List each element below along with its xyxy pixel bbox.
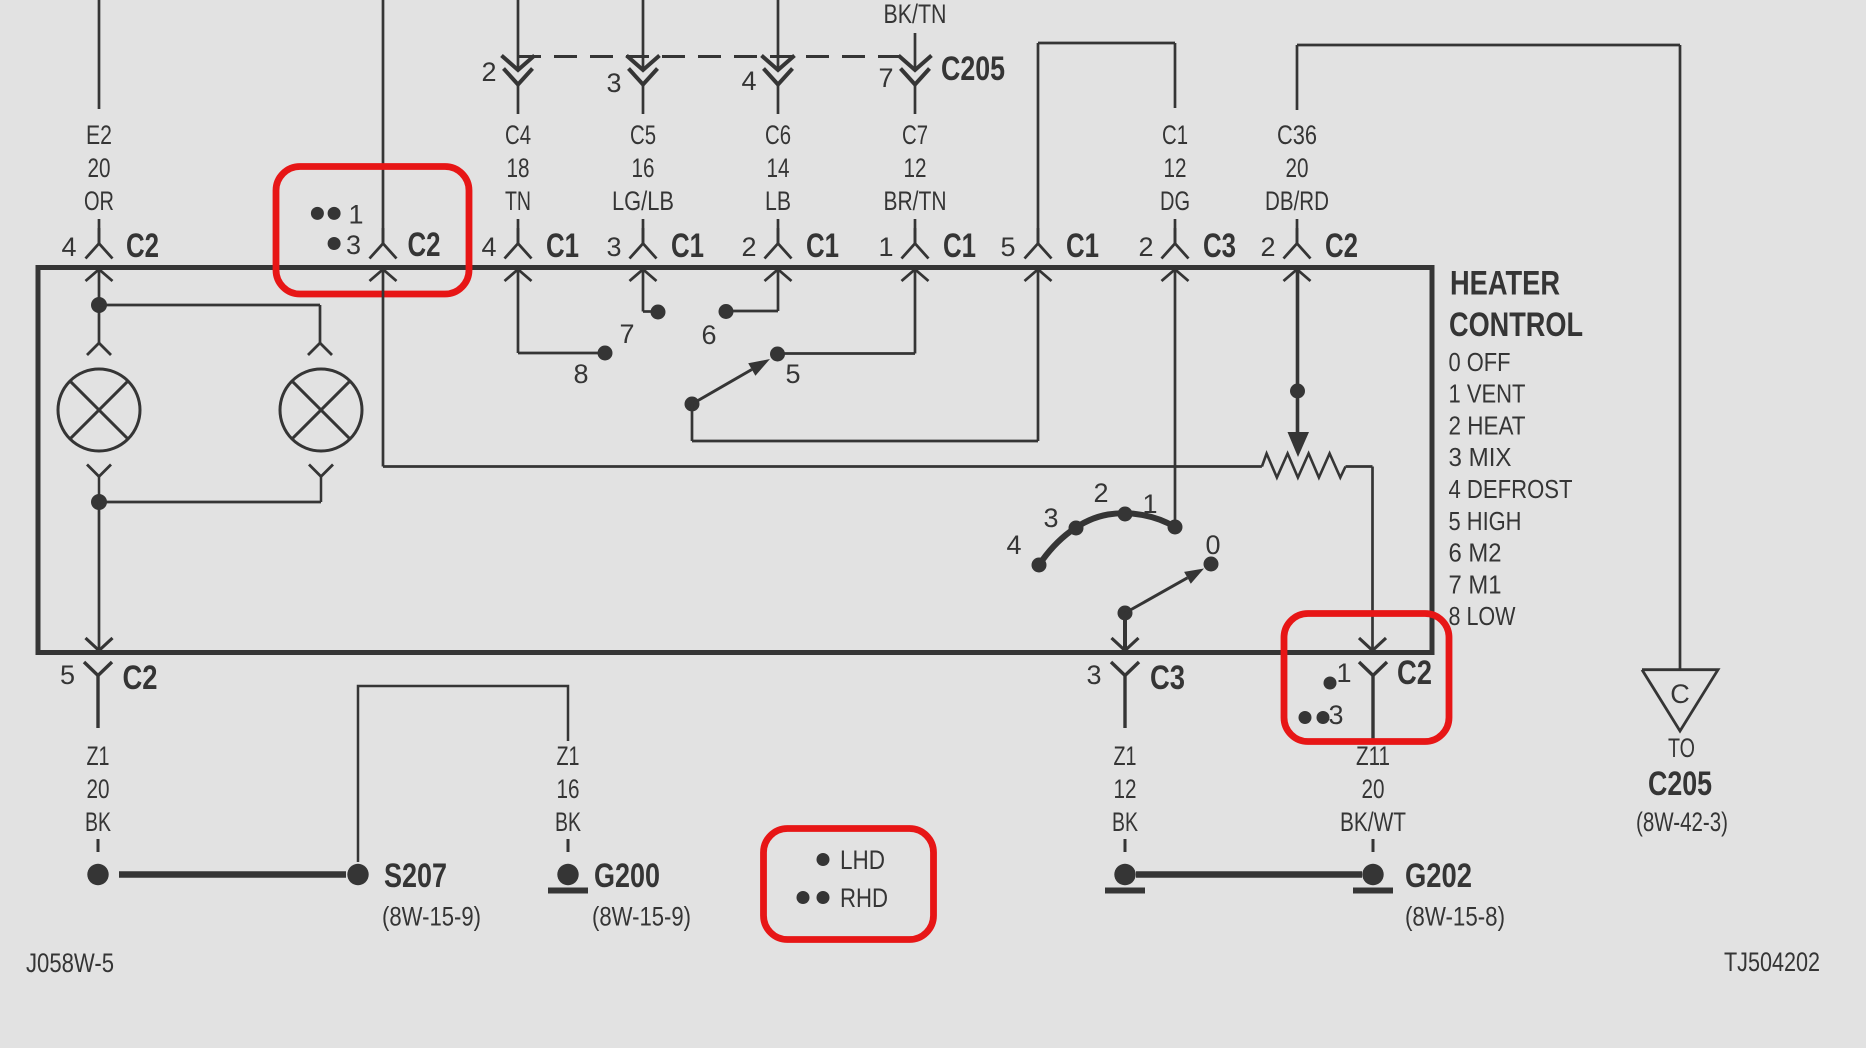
svg-text:1: 1 [878, 232, 893, 262]
svg-text:OR: OR [84, 186, 114, 216]
svg-text:G200: G200 [594, 857, 660, 895]
svg-text:0 OFF: 0 OFF [1449, 347, 1511, 377]
svg-text:C205: C205 [1648, 765, 1712, 803]
svg-text:Z1: Z1 [87, 741, 110, 771]
svg-text:TO: TO [1668, 733, 1695, 763]
svg-text:TJ504202: TJ504202 [1724, 947, 1820, 977]
svg-text:C36: C36 [1277, 120, 1317, 150]
svg-text:BK/WT: BK/WT [1340, 807, 1406, 837]
svg-text:5 HIGH: 5 HIGH [1449, 506, 1522, 536]
svg-text:Z1: Z1 [1114, 741, 1137, 771]
svg-text:1: 1 [1336, 658, 1351, 688]
svg-text:4: 4 [741, 66, 756, 96]
svg-text:C: C [1670, 679, 1690, 709]
svg-text:C2: C2 [123, 659, 158, 697]
svg-text:C4: C4 [505, 120, 531, 150]
svg-text:DB/RD: DB/RD [1265, 186, 1329, 216]
svg-text:C5: C5 [630, 120, 656, 150]
svg-text:20: 20 [1362, 774, 1385, 804]
svg-text:RHD: RHD [840, 883, 888, 913]
svg-text:DG: DG [1160, 186, 1190, 216]
svg-text:2: 2 [481, 57, 496, 87]
svg-text:20: 20 [87, 774, 110, 804]
svg-text:BK: BK [1112, 807, 1138, 837]
svg-text:0: 0 [1205, 530, 1220, 560]
svg-text:4: 4 [481, 232, 496, 262]
svg-text:C1: C1 [546, 227, 579, 265]
svg-text:1: 1 [1142, 489, 1157, 519]
svg-text:2: 2 [741, 232, 756, 262]
svg-text:12: 12 [1164, 153, 1187, 183]
svg-text:12: 12 [904, 153, 927, 183]
svg-text:C2: C2 [1397, 654, 1432, 692]
svg-text:C6: C6 [765, 120, 791, 150]
svg-text:5: 5 [1000, 232, 1015, 262]
svg-text:2 HEAT: 2 HEAT [1449, 410, 1526, 440]
svg-text:TN: TN [505, 186, 531, 216]
svg-text:C7: C7 [902, 120, 928, 150]
svg-text:Z11: Z11 [1356, 741, 1390, 771]
svg-text:1 VENT: 1 VENT [1449, 379, 1526, 409]
svg-text:12: 12 [1114, 774, 1137, 804]
svg-text:C205: C205 [941, 50, 1005, 88]
svg-text:3: 3 [1328, 700, 1343, 730]
svg-text:2: 2 [1260, 232, 1275, 262]
svg-text:C1: C1 [671, 227, 704, 265]
svg-text:16: 16 [632, 153, 655, 183]
svg-text:Z1: Z1 [557, 741, 580, 771]
svg-text:BK: BK [555, 807, 581, 837]
svg-text:BK/TN: BK/TN [884, 0, 947, 29]
svg-text:7 M1: 7 M1 [1449, 569, 1502, 599]
svg-text:4: 4 [1006, 530, 1021, 560]
svg-text:C3: C3 [1203, 227, 1236, 265]
svg-text:20: 20 [1286, 153, 1309, 183]
svg-text:14: 14 [767, 153, 790, 183]
svg-text:(8W-15-9): (8W-15-9) [592, 902, 691, 932]
svg-text:C3: C3 [1150, 659, 1185, 697]
svg-text:C2: C2 [126, 227, 159, 265]
svg-text:3 MIX: 3 MIX [1449, 442, 1512, 472]
svg-text:3: 3 [1043, 503, 1058, 533]
svg-text:5: 5 [785, 359, 800, 389]
svg-text:(8W-15-8): (8W-15-8) [1405, 902, 1505, 932]
svg-text:7: 7 [878, 63, 893, 93]
svg-text:18: 18 [507, 153, 530, 183]
svg-text:(8W-42-3): (8W-42-3) [1636, 807, 1728, 837]
svg-text:S207: S207 [384, 857, 447, 895]
svg-text:1: 1 [348, 200, 363, 230]
svg-text:7: 7 [619, 319, 634, 349]
svg-text:J058W-5: J058W-5 [26, 948, 114, 978]
svg-text:CONTROL: CONTROL [1449, 306, 1583, 344]
svg-text:8: 8 [573, 359, 588, 389]
svg-text:(8W-15-9): (8W-15-9) [382, 902, 481, 932]
svg-text:LG/LB: LG/LB [612, 186, 674, 216]
svg-text:G202: G202 [1405, 857, 1472, 895]
svg-text:4 DEFROST: 4 DEFROST [1449, 474, 1573, 504]
svg-text:C2: C2 [1325, 227, 1358, 265]
svg-text:LHD: LHD [840, 845, 885, 875]
svg-text:C1: C1 [806, 227, 839, 265]
svg-text:8 LOW: 8 LOW [1449, 601, 1516, 631]
svg-text:6 M2: 6 M2 [1449, 538, 1502, 568]
svg-text:C2: C2 [408, 226, 441, 264]
svg-text:E2: E2 [86, 120, 112, 150]
svg-text:6: 6 [701, 320, 716, 350]
svg-text:3: 3 [346, 230, 361, 260]
svg-text:3: 3 [606, 232, 621, 262]
svg-text:C1: C1 [1066, 227, 1099, 265]
svg-text:5: 5 [60, 660, 75, 690]
svg-text:C1: C1 [1162, 120, 1188, 150]
svg-text:LB: LB [765, 186, 791, 216]
svg-text:BR/TN: BR/TN [884, 186, 947, 216]
svg-text:2: 2 [1138, 232, 1153, 262]
svg-text:16: 16 [557, 774, 580, 804]
svg-text:C1: C1 [943, 227, 976, 265]
svg-text:2: 2 [1093, 478, 1108, 508]
svg-text:4: 4 [61, 232, 76, 262]
svg-text:3: 3 [606, 68, 621, 98]
svg-text:HEATER: HEATER [1450, 265, 1560, 303]
svg-text:20: 20 [88, 153, 111, 183]
svg-text:BK: BK [85, 807, 111, 837]
svg-text:3: 3 [1086, 660, 1101, 690]
